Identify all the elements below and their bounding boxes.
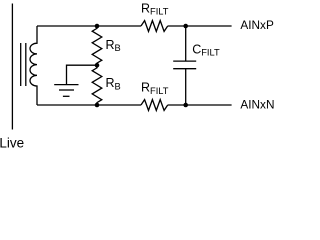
node: junction bottom wire / RB: [95, 103, 100, 108]
svg-text:Live: Live: [0, 135, 24, 150]
node: junction RB midpoint / ground: [95, 63, 100, 68]
wire top: coil to RFILT: [37, 25, 141, 27]
wire bottom: coil to RFILT: [37, 104, 141, 106]
wire: RB midpoint to ground: [67, 65, 98, 84]
transformer T1 secondary winding: [30, 26, 37, 105]
resistor RFILT (bottom): [141, 100, 168, 111]
svg-text:RB: RB: [106, 38, 121, 53]
wire bottom: RFILT to AINxN: [168, 104, 232, 106]
resistor RFILT (top): [141, 21, 168, 32]
svg-text:CFILT: CFILT: [192, 43, 220, 58]
svg-text:RFILT: RFILT: [141, 1, 169, 16]
svg-text:AINxP: AINxP: [240, 18, 274, 32]
node: junction bottom wire / CFILT: [183, 103, 188, 108]
transformer T1 core: [21, 43, 26, 86]
wire top: RFILT to AINxP: [168, 25, 232, 27]
ground: [54, 85, 78, 97]
svg-text:RB: RB: [106, 76, 121, 91]
wire Live line (transformer primary): [11, 4, 13, 130]
svg-text:AINxN: AINxN: [240, 97, 274, 111]
resistor RB (bottom): [92, 65, 102, 105]
capacitor CFILT: [173, 26, 196, 105]
node: junction top wire / RB: [95, 24, 100, 29]
resistor RB (top): [92, 26, 102, 65]
svg-text:RFILT: RFILT: [141, 81, 169, 96]
node: junction top wire / CFILT: [183, 24, 188, 29]
